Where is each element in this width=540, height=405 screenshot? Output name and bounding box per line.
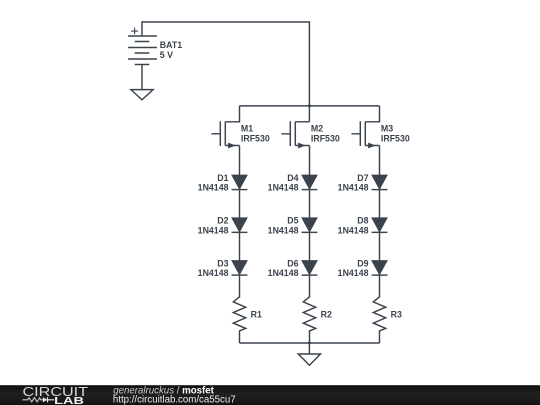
svg-text:IRF530: IRF530	[381, 133, 410, 143]
wire drain rail	[240, 105, 380, 107]
svg-text:M2: M2	[311, 123, 323, 133]
wire M2 source to R2	[309, 146, 311, 298]
battery BAT1	[128, 28, 182, 65]
wire battery negative	[141, 64, 143, 89]
svg-text:1N4148: 1N4148	[268, 268, 299, 278]
svg-text:1N4148: 1N4148	[338, 225, 369, 235]
wire ground rail	[240, 342, 380, 344]
plus sign	[131, 28, 138, 34]
ground (battery)	[131, 90, 153, 100]
svg-text:LAB: LAB	[54, 396, 84, 405]
svg-text:5 V: 5 V	[160, 50, 173, 60]
svg-text:IRF530: IRF530	[241, 133, 270, 143]
wire to ground	[308, 343, 310, 354]
svg-text:1N4148: 1N4148	[198, 268, 229, 278]
transistor M3	[351, 106, 409, 148]
svg-text:M3: M3	[381, 123, 393, 133]
svg-text:BAT1: BAT1	[160, 40, 182, 50]
svg-text:D9: D9	[357, 258, 368, 268]
svg-text:D1: D1	[217, 173, 228, 183]
svg-text:R3: R3	[391, 309, 402, 319]
diode D7	[338, 173, 388, 193]
resistor R1	[233, 297, 262, 343]
svg-text:M1: M1	[241, 123, 253, 133]
svg-text:D4: D4	[287, 173, 298, 183]
svg-text:R2: R2	[321, 309, 332, 319]
battery plates	[128, 36, 157, 59]
logo resistor zigzag	[23, 398, 43, 402]
svg-text:D2: D2	[217, 216, 228, 226]
svg-text:1N4148: 1N4148	[268, 225, 299, 235]
ground (main)	[298, 354, 320, 365]
svg-text:1N4148: 1N4148	[338, 183, 369, 193]
svg-text:1N4148: 1N4148	[198, 225, 229, 235]
svg-text:1N4148: 1N4148	[338, 268, 369, 278]
diode D1	[198, 173, 248, 193]
resistor R2	[303, 297, 332, 343]
svg-text:IRF530: IRF530	[311, 133, 340, 143]
wire battery positive to VDD node	[142, 22, 309, 122]
diode D5	[268, 216, 318, 236]
diode D2	[198, 216, 248, 236]
diode D6	[268, 258, 318, 278]
diode D3	[198, 258, 248, 278]
svg-text:D7: D7	[357, 173, 368, 183]
resistor R3	[373, 297, 402, 343]
node ground junction dot	[308, 342, 311, 345]
svg-text:D8: D8	[357, 216, 368, 226]
wire M3 source to R3	[379, 146, 381, 298]
logo diode symbol	[43, 397, 47, 402]
svg-text:1N4148: 1N4148	[268, 183, 299, 193]
wire M1 source to R1	[239, 146, 241, 298]
transistor M1	[211, 106, 269, 148]
svg-text:D3: D3	[217, 258, 228, 268]
node VDD junction dot	[308, 104, 311, 107]
svg-text:R1: R1	[251, 309, 262, 319]
svg-text:http://circuitlab.com/ca55cu7: http://circuitlab.com/ca55cu7	[113, 395, 236, 405]
diode D4	[268, 173, 318, 193]
svg-text:D6: D6	[287, 258, 298, 268]
svg-text:D5: D5	[287, 216, 298, 226]
transistor M2	[281, 121, 339, 148]
diode D9	[338, 258, 388, 278]
diode D8	[338, 216, 388, 236]
svg-text:1N4148: 1N4148	[198, 183, 229, 193]
